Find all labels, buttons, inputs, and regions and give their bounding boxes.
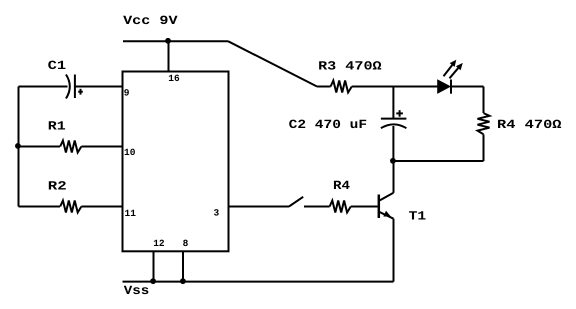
- transistor T1: [379, 193, 394, 219]
- junction C2/R4/collector: [390, 158, 396, 164]
- wire diagonal to R3: [317, 86, 331, 88]
- svg-text:11: 11: [125, 208, 137, 219]
- wire pin 8 to Vss: [182, 251, 184, 282]
- svg-text:C1: C1: [48, 59, 66, 73]
- svg-text:3: 3: [214, 208, 220, 219]
- svg-text:9: 9: [124, 87, 130, 98]
- junction left rail / R1: [15, 143, 21, 149]
- wire R1 to pin 10: [81, 146, 122, 148]
- resistor R1: [60, 141, 81, 153]
- wire bottom of right loop: [393, 160, 483, 162]
- wire Vcc rail: [123, 40, 228, 42]
- junction pin12/Vss: [150, 278, 156, 284]
- wire R3 to LED: [352, 86, 438, 88]
- IC U1: [123, 72, 229, 252]
- svg-text:Vcc 9V: Vcc 9V: [123, 14, 178, 28]
- wire right rail bottom: [483, 134, 485, 161]
- resistor R4 (right): [478, 113, 490, 134]
- resistor R2: [60, 201, 81, 213]
- wire R2 to pin 11: [81, 206, 122, 208]
- junction pin8/Vss: [180, 278, 186, 284]
- resistor R4 (base): [330, 201, 351, 213]
- svg-text:C2 470 uF: C2 470 uF: [289, 118, 368, 132]
- wire right rail top: [483, 87, 485, 114]
- wire left rail to C1: [19, 86, 68, 88]
- svg-text:10: 10: [124, 147, 136, 158]
- wire left rail: [18, 87, 20, 207]
- wire pin 16 to Vcc rail: [168, 41, 170, 71]
- wire left rail to R2: [19, 206, 61, 208]
- wire pin 12 to Vss: [153, 251, 155, 282]
- svg-text:16: 16: [168, 73, 180, 84]
- switch S1 lever: [289, 197, 303, 207]
- wire R4 to base: [351, 206, 378, 208]
- wire collector up to junction: [393, 161, 395, 193]
- wire C1 to pin 9: [75, 86, 123, 88]
- junction Vcc/pin16: [165, 38, 171, 44]
- svg-text:12: 12: [153, 238, 165, 249]
- wire emitter down to Vss: [393, 219, 395, 282]
- svg-text:T1: T1: [409, 210, 427, 224]
- svg-text:R4 470Ω: R4 470Ω: [497, 118, 562, 132]
- resistor R3: [331, 81, 352, 93]
- svg-text:R1: R1: [48, 119, 66, 133]
- wire C2 to junction: [392, 126, 394, 161]
- wire left rail to R1: [19, 146, 61, 148]
- LED D1: [438, 60, 463, 94]
- wire switch to R4: [304, 206, 330, 208]
- wire pin 3 to switch: [229, 206, 290, 208]
- svg-text:R3 470Ω: R3 470Ω: [318, 59, 382, 73]
- wire R3 node down to C2: [392, 87, 394, 119]
- wire LED to right rail: [451, 86, 484, 88]
- svg-text:8: 8: [183, 238, 189, 249]
- wire Vcc diagonal to R3: [228, 41, 317, 86]
- capacitor C2: [381, 110, 407, 128]
- svg-text:R4: R4: [333, 179, 351, 193]
- capacitor C1: [66, 75, 83, 99]
- svg-text:R2: R2: [48, 180, 67, 194]
- wire Vss rail: [123, 281, 394, 283]
- svg-text:Vss: Vss: [124, 284, 150, 298]
